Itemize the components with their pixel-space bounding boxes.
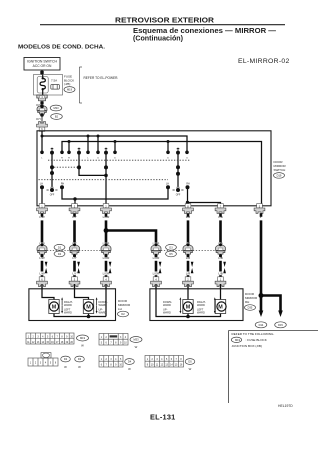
mirror terminals entering boxes [37,277,48,287]
junction: stem node (106,175.4) [104,174,108,178]
svg-text:D2: D2 [64,357,68,361]
fuse F [40,79,45,90]
wire stub above mirror terminal x=106 [105,275,108,277]
wire stub above mirror terminal x=220.5 [219,275,222,277]
junction: L/OR branch node [104,228,109,233]
table 5 [145,356,184,368]
wire stub at switch terminal x=74.5 [73,213,76,217]
inline connector M33 [37,105,47,117]
wire: branch to terminal 7 [188,203,221,206]
wire L/R to mirror terminal [187,261,190,272]
junction: stem node (178,167.2) [176,165,180,169]
select B RH contact [186,185,190,189]
wire stub at switch terminal x=188 [187,213,190,217]
movable contact tick col 106 [105,148,108,151]
mechanical linkage (dashed) lower [39,179,169,181]
select A OFF pole [50,188,54,192]
wire: contact stub from bus B col 69 [68,142,70,152]
svg-text:OFF: OFF [50,195,55,197]
junction: stem node (106,167.4) [104,165,108,169]
svg-text:WARD: WARD [163,303,171,307]
junction: stem node (187.5,202.5) [186,201,189,204]
svg-text:RH: RH [186,183,190,185]
wire: bus B to terminal 5 drop [62,142,262,206]
switch contact dot col 98 [96,151,100,155]
wire stub above mirror terminal x=74.5 [73,275,76,277]
svg-text:JUNCTION BOX (J/B): JUNCTION BOX (J/B) [232,344,262,348]
svg-text:D5: D5 [188,360,192,364]
svg-text:WARD: WARD [197,303,205,307]
svg-text:WARD: WARD [64,311,72,315]
select A RH contact [60,185,64,189]
select B OFF pole [176,188,180,192]
wire stub below connector x=106 [105,256,108,257]
wire: movable pole stem col 52 [51,154,53,186]
switch contact dot col 52 [50,151,54,155]
wire: drop to terminal 3 [74,199,76,206]
svg-text:LH: LH [40,183,43,185]
svg-text:EL-MIRROR-02: EL-MIRROR-02 [238,58,290,65]
svg-text:M: M [52,305,57,311]
svg-text:M33: M33 [53,106,59,110]
contact letters [41,158,188,160]
junction: bus B col 69 [68,140,71,143]
wire: bus A from entry terminal 6 to contact R1 [42,131,187,151]
fuse icon [51,85,60,90]
table 3 with key [28,353,58,366]
junction: entry node on bus A [41,135,44,138]
refer-to note block [228,331,230,404]
switch contact dot col 42 [40,151,44,155]
wire L/Y to mirror terminal [73,261,76,272]
wire: contact stub from bus A col 98 [97,136,99,151]
switch contact dot col 168 [166,151,170,155]
svg-text:O/Y: O/Y [36,117,41,121]
wire stub below connector x=74.5 [73,256,76,257]
wire: movable pole stem col 79 with elbow to col 106 [79,154,106,175]
wire: movable pole stem col 106 to terminal 2 [105,154,107,206]
junction: stem node (79,167.4) [77,165,81,169]
svg-text:M19: M19 [67,88,73,92]
direction arrows beside wires [45,262,226,273]
thick wires below switch [42,220,281,310]
thick wires to mirrors [42,261,221,272]
wire L branch to second page ref [261,296,281,311]
middle inline connectors row [39,242,222,260]
svg-text:REFER TO THE FOLLOWING.: REFER TO THE FOLLOWING. [232,332,275,336]
wire: select B RH contact to terminal 8 [187,189,189,206]
wire L/OR to mirror terminal [155,261,158,272]
wire: select LH contact to terminal 1 [41,189,43,206]
junction: bus A col 98 [97,135,100,138]
wire L from switch terminal 5 to page refs [260,220,263,310]
connector below fuse block [37,95,47,101]
svg-text:D35: D35 [248,306,253,310]
svg-text:D4: D4 [128,360,132,364]
wire L/W to mirror terminal [41,261,44,272]
wire stub at switch terminal x=220.5 [219,213,222,217]
mechanical linkage (dashed) upper [48,159,190,161]
svg-text:MODELOS DE COND. DCHA.: MODELOS DE COND. DCHA. [18,45,105,51]
door mirror LH box [29,289,116,321]
header title [18,15,290,65]
motor RH 1 [183,300,193,314]
wire L/W from switch terminal 1 [41,220,44,242]
svg-text:M19: M19 [80,336,86,340]
switch contact dot col 79 [77,151,81,155]
svg-text:RH: RH [245,300,249,304]
movable contact tick col 52 [51,148,54,151]
wire stub at switch terminal x=106 [105,213,108,217]
svg-text:: FUSE BLOCK: : FUSE BLOCK [246,338,268,342]
ignition switch [24,58,60,71]
svg-text:ACC OR ON: ACC OR ON [33,64,52,68]
svg-text:W: W [64,365,67,369]
svg-text:D15: D15 [278,323,283,327]
select B LH contact [166,185,170,189]
switch contact dot col 115 [113,151,117,155]
table 4 [99,356,123,368]
junction: stem node (178,173.8) [176,172,180,176]
svg-text:W: W [81,343,84,347]
wire L/Y from switch terminal 3 [73,220,76,242]
mechanical linkage (dashed) col52-col79 [54,166,77,168]
svg-text:LH: LH [166,183,169,185]
wire L/OR to mirror terminal [105,261,108,272]
svg-text:M19: M19 [235,338,241,342]
wire stub above mirror terminal x=42 [41,275,44,277]
wire: contact stub from bus A col 88 [87,136,89,151]
switch contact dot col 187 [185,151,189,155]
svg-text:L/Y: L/Y [72,272,76,276]
wire L/OR branch to RH mirror [106,231,156,243]
wire name labels row 1 [39,215,261,219]
switch contact dot col 88 [86,151,90,155]
wire L/OR from switch terminal 2 [105,220,108,242]
wire: contact stub from bus B col 168 [167,142,169,152]
movable contact tick col 178 [177,148,180,151]
svg-text:D14: D14 [259,323,264,327]
svg-text:REFER TO EL-POWER.: REFER TO EL-POWER. [84,76,119,80]
svg-text:B2: B2 [55,115,59,119]
junction: bus B col 168 [167,140,170,143]
switch contact dot col 62 [60,151,64,155]
junction: stem node (75,199) [73,197,76,200]
door mirror RH box [150,289,243,321]
svg-text:WARD: WARD [197,311,205,315]
svg-text:RH: RH [61,183,65,185]
svg-text:D2: D2 [121,312,125,316]
wire stub above mirror terminal x=156 [155,275,158,277]
svg-text:Esquema de conexiones — MIRROR: Esquema de conexiones — MIRROR — [133,28,276,35]
junction: stem node (52,173) [50,171,54,175]
svg-text:L/B: L/B [218,272,222,276]
svg-text:M33: M33 [133,338,139,342]
svg-text:L/OR: L/OR [153,272,160,276]
svg-text:7.5A: 7.5A [51,79,57,83]
dotted pair lines [47,250,216,252]
wire stub below connector x=188 [187,256,190,257]
svg-text:L/R: L/R [186,272,191,276]
wire: contact stub L (LH L/R) [41,136,43,151]
table M19 [26,333,74,344]
junction: bus A col 88 [87,135,90,138]
refer bracket [79,67,82,103]
svg-text:HEL197D: HEL197D [278,404,293,408]
wire: select A RH contact to select B LH contact [62,189,168,200]
svg-text:LH: LH [118,307,122,311]
svg-text:D3: D3 [78,357,82,361]
wire: movable pole stem col 178 [177,154,179,186]
svg-text:WARD: WARD [64,303,72,307]
wire [41,70,43,75]
down arrows to refs at right [259,311,283,318]
svg-text:W: W [128,367,131,371]
svg-text:W: W [189,367,192,371]
svg-text:W: W [78,365,81,369]
stacked oval pair RH [166,244,177,256]
motor LH 2 [83,300,93,314]
svg-text:EL-131: EL-131 [150,413,175,422]
wire L/B from switch terminal 7 [219,220,222,242]
movable contact tick col 79 [78,148,81,151]
motor RH 2 [215,300,226,314]
svg-text:W: W [135,345,138,349]
wire L/B to mirror terminal [219,261,222,272]
svg-text:D19: D19 [277,174,282,178]
svg-text:L/OR: L/OR [103,272,110,276]
junction: stem node (52,167.2) [50,165,54,169]
svg-text:OFF: OFF [176,195,181,197]
switch contact dot col 106 [104,151,108,155]
svg-text:SWITCH: SWITCH [274,168,286,172]
table 2 [99,334,128,346]
wire stub below connector x=156 [155,256,158,257]
wire stub above mirror terminal x=188 [187,275,190,277]
select A LH contact [40,185,44,189]
wire: contact stub from bus B col 115 [114,142,116,152]
motor LH 1 [49,300,59,314]
svg-text:(J/B): (J/B) [64,82,70,86]
door mirror switch box [37,131,271,206]
svg-text:WARD: WARD [163,311,171,315]
inline connector symbols [37,243,47,257]
switch contact dot col 178 [176,151,180,155]
svg-text:IGNITION SWITCH: IGNITION SWITCH [27,60,58,64]
svg-text:M: M [186,305,191,311]
entry terminal into switch box [37,122,48,132]
switch internals [42,131,262,206]
svg-text:L/W: L/W [39,272,44,276]
junction: bus B col 115 [114,140,117,143]
svg-text:(Continuación): (Continuación) [133,36,183,43]
svg-text:WARD: WARD [99,311,107,315]
svg-text:WARD: WARD [99,303,107,307]
stacked oval pair LH [54,244,65,256]
wire stub at switch terminal x=42 [41,213,44,217]
switch contact dot col 69 [67,151,71,155]
svg-text:M: M [86,305,91,311]
svg-text:M: M [218,305,223,311]
fuse block box [34,75,63,96]
wire L/R from switch terminal 8 [187,220,190,242]
wire labels above mirror terminals [39,272,222,276]
svg-text:RETROVISOR EXTERIOR: RETROVISOR EXTERIOR [115,15,215,24]
wire stub below connector x=220.5 [219,256,222,257]
wire stub at switch terminal x=261 [260,213,263,217]
wire stub below connector x=42 [41,256,44,257]
